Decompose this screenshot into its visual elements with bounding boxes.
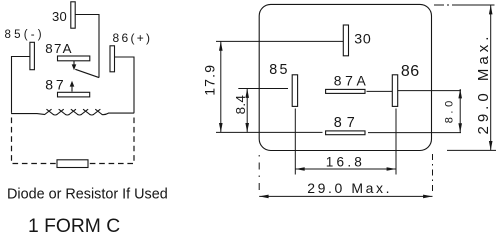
pin slot 30 <box>343 25 348 56</box>
dimension 29.0 Max line with arrows <box>259 195 432 197</box>
dimension line A: pin30 centerline <box>216 40 343 42</box>
svg-text:87: 87 <box>334 115 360 131</box>
pin 85 terminal (schematic) <box>30 42 35 69</box>
svg-text:29.0 Max.: 29.0 Max. <box>475 33 492 135</box>
pin 30 terminal (schematic) <box>71 2 75 28</box>
svg-text:86(+): 86(+) <box>113 31 153 45</box>
wire 85 to coil <box>12 57 30 113</box>
svg-text:85: 85 <box>269 62 290 78</box>
resistor (suppression) <box>57 160 88 168</box>
svg-text:30: 30 <box>354 32 371 48</box>
svg-text:86: 86 <box>401 63 420 80</box>
dimension line B: pin85 centerline <box>238 88 288 90</box>
svg-text:85(-): 85(-) <box>5 29 45 41</box>
svg-text:8.4: 8.4 <box>233 95 248 115</box>
wire 86 to coil <box>115 57 135 113</box>
wire 30 to armature pivot <box>76 15 100 78</box>
arrow at 87 contact <box>71 86 73 92</box>
svg-text:8.0: 8.0 <box>444 97 456 123</box>
ticks for 29.0 Max (vertical right) <box>434 4 495 6</box>
extension lines for 16.8 <box>294 109 296 175</box>
svg-text:1 FORM C: 1 FORM C <box>28 216 120 237</box>
contact 87A bar <box>58 56 90 61</box>
dimension 8.0 vertical line with arrows <box>459 89 461 133</box>
armature wire (movable contact) <box>75 69 99 77</box>
pin 86 terminal (schematic) <box>110 46 115 72</box>
svg-text:29.0 Max.: 29.0 Max. <box>307 180 392 196</box>
svg-text:Diode or Resistor If Used: Diode or Resistor If Used <box>7 187 168 203</box>
svg-text:17.9: 17.9 <box>202 64 218 96</box>
arrow at 87A contact <box>73 61 75 65</box>
svg-text:30: 30 <box>52 9 67 24</box>
svg-text:87: 87 <box>45 77 66 93</box>
dimension line C: pin87 centerline <box>216 131 323 133</box>
dimension line E: pin87 centerline to 8.0 dim <box>368 132 461 134</box>
relay body outline (bottom view) <box>259 4 431 150</box>
pin slot 87 <box>326 131 365 135</box>
svg-text:16.8: 16.8 <box>326 155 365 170</box>
dimension line D: 87A/86 centerline to 8.0 dim <box>367 90 393 92</box>
pin slot 85 <box>292 75 297 107</box>
contact 87 bar <box>58 92 90 97</box>
svg-text:87A: 87A <box>45 41 73 56</box>
coil (relay winding) <box>12 109 134 115</box>
svg-text:87A: 87A <box>334 73 370 89</box>
pin slot 86 <box>392 75 397 107</box>
dimension 16.8 line with arrows <box>295 168 396 170</box>
extension marks for 29.0 Max (horizontal) <box>258 155 260 193</box>
dimension 17.9 vertical line with arrows <box>220 41 222 132</box>
dimension 29.0 Max vertical line with arrows <box>490 5 492 150</box>
dimension 8.4 vertical line with arrows <box>246 89 248 133</box>
dashed wire (optional suppression component branch) <box>12 118 135 164</box>
pin slot 87A <box>326 89 365 93</box>
